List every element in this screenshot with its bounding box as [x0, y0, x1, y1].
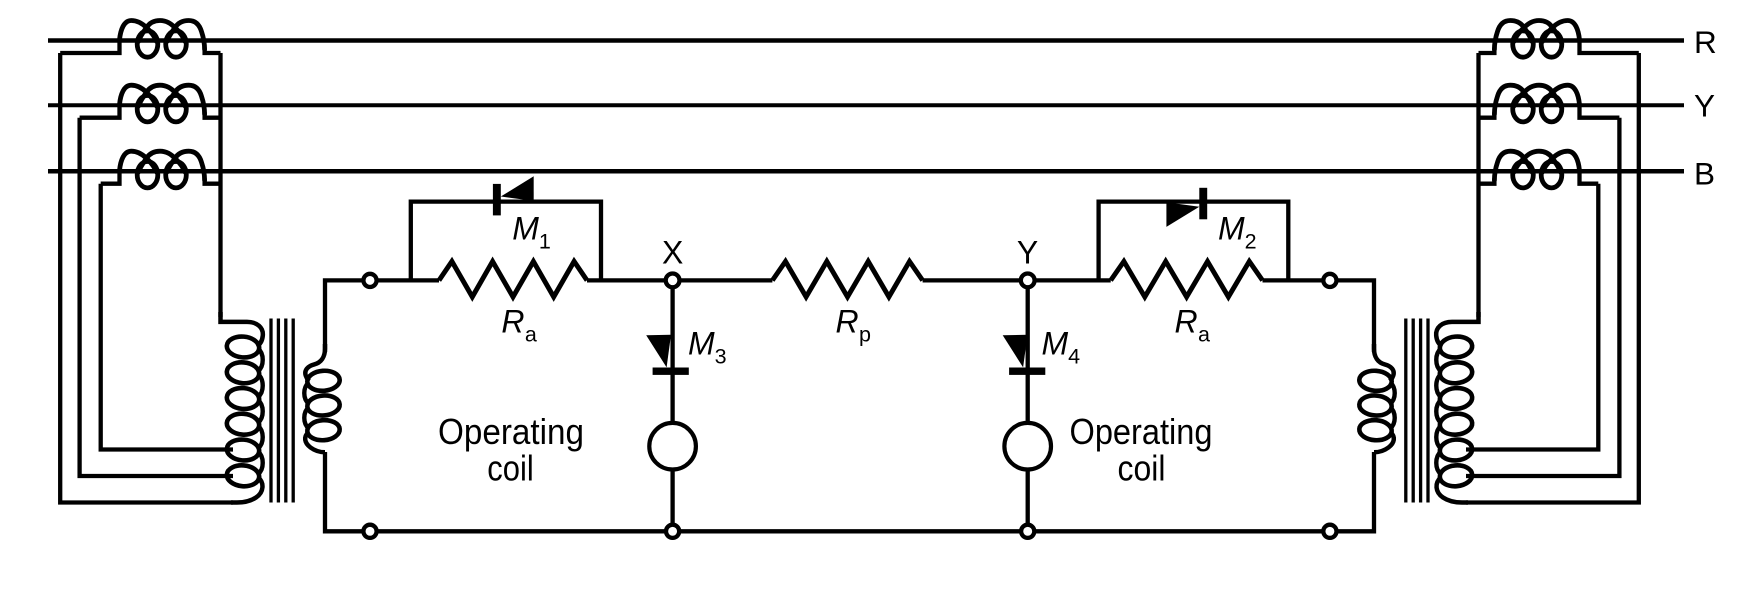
operating coil element right [1004, 423, 1051, 470]
transformer T1 secondary connector 1 [304, 382, 309, 404]
CT coil ring [1513, 162, 1534, 188]
transformer T1 primary ring 6 [226, 464, 260, 488]
transformer T1 primary connector 5 [258, 452, 263, 475]
terminal Y branch bottom [1021, 525, 1034, 538]
transformer T1 core lamination 3 [1412, 319, 1415, 503]
transformer T1 secondary connector 1 [1390, 382, 1395, 404]
transformer T1 primary winding entry [221, 312, 263, 346]
node Y [1021, 274, 1035, 288]
rectifier M4 bar [1009, 368, 1045, 375]
terminal X branch bottom [666, 525, 679, 538]
CT coil ring [137, 31, 158, 57]
CT coil ring [137, 96, 158, 122]
transformer T1 core lamination 4 [292, 319, 295, 503]
terminal left relay terminal top [363, 274, 376, 287]
left CT and summation transformer assembly [60, 21, 340, 503]
transformer T1 secondary ring 1 [1359, 370, 1393, 392]
transformer T1 primary winding exit [231, 477, 262, 502]
wire CT B right stub [1479, 178, 1495, 184]
wire CT R left stub [60, 40, 119, 53]
svg-text:M: M [512, 211, 539, 247]
CT coil ring [1541, 162, 1562, 188]
transformer T1 primary ring 2 [226, 361, 260, 385]
terminal right relay terminal top [1323, 274, 1336, 287]
CT coil strand hump 3 [1494, 85, 1532, 114]
CT coil ring [1513, 31, 1534, 57]
wire phase line Y [48, 103, 1684, 107]
operating coil element left [649, 423, 696, 470]
CT coil strand hump 3 [167, 151, 205, 180]
transformer T1 primary connector 4 [258, 426, 263, 449]
svg-text:M: M [1042, 326, 1069, 362]
svg-text:p: p [859, 322, 871, 346]
wire M2 bypass branch [1099, 202, 1289, 281]
svg-text:coil: coil [487, 447, 533, 488]
CT coil strand hump 1 [1542, 21, 1579, 42]
transformer T1 primary connector 5 [1436, 452, 1441, 475]
transformer T1 secondary winding exit [305, 432, 325, 453]
transformer T1 primary ring 1 [226, 335, 260, 359]
wire CT R left stub [1580, 40, 1639, 53]
wire vertical from CT Y to summation transformer tap [80, 118, 233, 476]
svg-text:R: R [1175, 304, 1198, 340]
wire vertical from CT R to summation transformer tap [60, 53, 233, 503]
CT coil ring [166, 31, 187, 57]
transformer T1 core lamination 3 [284, 319, 287, 503]
transformer T1 primary connector 1 [258, 349, 263, 372]
transformer T1 core lamination 1 [1426, 319, 1429, 503]
wire pilot row left segment [325, 280, 439, 352]
transformer T1 core lamination 1 [269, 319, 272, 503]
wire CT Y right stub [1479, 112, 1495, 118]
transformer T1 primary winding exit [1437, 477, 1468, 502]
CT coil strand hump 1 [120, 85, 157, 106]
CT coil strand hump 3 [167, 21, 205, 50]
rectifier M1 bar [493, 184, 501, 216]
CT coil strand hump 1 [1542, 85, 1579, 106]
rectifier M3 bar [653, 368, 689, 375]
wire common CT return vertical [218, 53, 222, 317]
svg-text:R: R [501, 304, 524, 340]
resistor Ra left [439, 261, 587, 297]
transformer T1 primary ring 2 [1439, 361, 1473, 385]
rectifier M4 triangle [1003, 335, 1028, 368]
CT coil strand hump 3 [1494, 151, 1532, 180]
transformer T1 core lamination 4 [1404, 319, 1407, 503]
wire phase line R [48, 38, 1684, 43]
transformer T1 core lamination 2 [1419, 319, 1422, 503]
svg-text:Y: Y [1017, 234, 1038, 270]
transformer T1 primary connector 3 [1436, 400, 1441, 423]
transformer T1 primary ring 1 [1439, 335, 1473, 359]
wire CT Y left stub [80, 105, 120, 118]
node X [666, 274, 680, 288]
transformer T1 secondary winding exit [1374, 432, 1394, 453]
wire vertical from CT B to summation transformer tap [101, 184, 233, 450]
CT coil strand hump 2 [1514, 151, 1561, 172]
wire vertical from CT R to summation transformer tap [1466, 53, 1639, 503]
wire CT B right stub [205, 178, 221, 184]
wire CT B left stub [101, 171, 120, 184]
wire Y branch vertical [1026, 280, 1030, 531]
CT coil strand hump 2 [1514, 85, 1561, 106]
svg-text:M: M [688, 326, 715, 362]
CT coil strand hump 1 [1542, 151, 1579, 172]
resistor Rp [772, 261, 922, 297]
CT coil strand hump 1 [120, 151, 157, 172]
wire CT Y left stub [1580, 105, 1620, 118]
rectifier M1 triangle [501, 176, 534, 201]
CT coil strand hump 3 [167, 85, 205, 114]
terminal right relay terminal bottom [1323, 525, 1336, 538]
transformer T1 secondary ring 3 [307, 419, 341, 441]
svg-text:Y: Y [1694, 88, 1715, 124]
svg-text:B: B [1694, 155, 1715, 191]
wire CT B left stub [1580, 171, 1599, 184]
svg-text:R: R [1694, 24, 1717, 60]
wire CT R right stub [205, 48, 221, 54]
transformer T1 primary ring 5 [1439, 438, 1473, 462]
svg-text:M: M [1218, 211, 1245, 247]
svg-text:a: a [1198, 322, 1210, 346]
wire CT Y right stub [205, 112, 221, 118]
transformer T1 primary connector 3 [258, 400, 263, 423]
svg-text:1: 1 [539, 229, 551, 253]
svg-text:Operating: Operating [438, 411, 584, 452]
transformer T1 primary connector 2 [258, 374, 263, 397]
svg-text:3: 3 [715, 344, 727, 368]
transformer T1 secondary ring 2 [1359, 394, 1393, 416]
wire M1 bypass branch [411, 202, 601, 281]
rectifier M2 triangle [1166, 202, 1199, 227]
transformer T1 core lamination 2 [277, 319, 280, 503]
CT coil ring [1541, 96, 1562, 122]
transformer T1 primary connector 4 [1436, 426, 1441, 449]
transformer T1 secondary connector 2 [1390, 407, 1395, 429]
transformer T1 primary ring 5 [226, 438, 260, 462]
wire pilot row right segment [1263, 280, 1375, 352]
wire CT R right stub [1479, 48, 1495, 54]
wire vertical from CT B to summation transformer tap [1466, 184, 1598, 450]
transformer T1 secondary ring 2 [307, 394, 341, 416]
transformer T1 secondary connector 2 [304, 407, 309, 429]
wire vertical from CT Y to summation transformer tap [1466, 118, 1619, 476]
svg-text:coil: coil [1118, 447, 1166, 488]
transformer T1 primary winding entry [1436, 312, 1478, 346]
wire bottom pilot bus [325, 452, 1374, 531]
svg-text:a: a [525, 322, 537, 346]
transformer T1 primary ring 6 [1439, 464, 1473, 488]
CT coil ring [1541, 31, 1562, 57]
transformer T1 secondary ring 3 [1359, 419, 1393, 441]
wire X branch vertical [670, 280, 674, 531]
CT coil strand hump 2 [138, 151, 185, 172]
transformer T1 primary ring 3 [226, 387, 260, 411]
terminal left relay terminal bottom [363, 525, 376, 538]
svg-text:X: X [662, 234, 683, 270]
transformer T1 secondary ring 1 [307, 370, 341, 392]
transformer T1 secondary winding entry [305, 344, 325, 381]
resistor Ra right [1111, 261, 1263, 297]
CT coil strand hump 1 [120, 21, 157, 42]
wire common CT return vertical [1476, 53, 1480, 317]
svg-text:R: R [836, 304, 859, 340]
transformer T1 primary connector 2 [1436, 374, 1441, 397]
svg-text:2: 2 [1245, 229, 1257, 253]
svg-text:4: 4 [1068, 344, 1080, 368]
CT coil ring [166, 96, 187, 122]
wire row Rp to Ra-right [923, 278, 1111, 282]
wire phase line B [48, 169, 1684, 174]
CT coil strand hump 3 [1494, 21, 1532, 50]
CT coil ring [137, 162, 158, 188]
CT coil strand hump 2 [138, 21, 185, 42]
svg-text:Operating: Operating [1070, 411, 1213, 452]
CT coil strand hump 2 [138, 85, 185, 106]
CT coil ring [1513, 96, 1534, 122]
transformer T1 primary connector 1 [1436, 349, 1441, 372]
right CT and summation transformer assembly (mirrored) [1359, 21, 1639, 503]
CT coil strand hump 2 [1514, 21, 1561, 42]
transformer T1 primary ring 4 [226, 412, 260, 436]
transformer T1 secondary winding entry [1374, 344, 1394, 381]
CT coil ring [166, 162, 187, 188]
rectifier M2 bar [1199, 188, 1207, 220]
transformer T1 primary ring 4 [1439, 412, 1473, 436]
transformer T1 primary ring 3 [1439, 387, 1473, 411]
rectifier M3 triangle [646, 335, 671, 368]
wire row Ra-left to Rp [587, 278, 772, 282]
